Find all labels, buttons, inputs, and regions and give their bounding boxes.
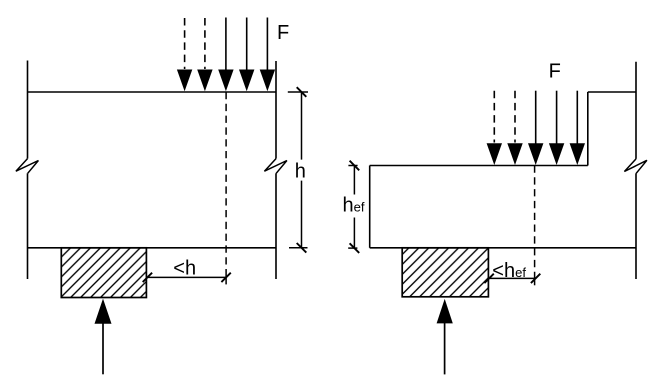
load arrow 5 right diagram: [570, 91, 585, 165]
svg-text:h: h: [295, 160, 306, 182]
left beam top line: [28, 91, 277, 93]
load arrow 2 (dashed) left diagram: [197, 18, 212, 91]
dimension hef right diagram: [348, 161, 359, 253]
support block right diagram (hatched): [402, 248, 488, 297]
svg-text:F: F: [277, 22, 289, 44]
svg-text:F: F: [549, 61, 561, 83]
left beam left edge (with break): [16, 61, 39, 280]
reaction arrow left diagram: [95, 299, 112, 375]
load arrow 1 (dashed) left diagram: [177, 18, 192, 91]
left beam bottom line: [28, 247, 277, 249]
dimension <h left diagram: [143, 273, 231, 282]
load arrow 3 right diagram: [528, 91, 543, 165]
left beam right edge (with break): [264, 61, 287, 279]
right beam outline: [370, 62, 647, 279]
dashed load-spread line left diagram: [225, 92, 227, 272]
load arrow 1 (dashed) right diagram: [487, 91, 502, 165]
load arrow 3 left diagram: [218, 18, 233, 92]
svg-text:<h: <h: [173, 258, 196, 280]
dimension h left diagram: [288, 87, 308, 252]
svg-text:hef: hef: [343, 195, 365, 217]
load arrow 5 left diagram: [260, 18, 275, 92]
dimension <hef right diagram: [484, 274, 540, 283]
load arrow 4 left diagram: [239, 18, 254, 92]
load arrow 4 right diagram: [549, 91, 564, 165]
dashed load-spread line right diagram: [534, 166, 536, 273]
reaction arrow right diagram: [437, 299, 453, 375]
load arrow 2 (dashed) right diagram: [507, 91, 522, 165]
support block left diagram (hatched): [61, 248, 146, 298]
svg-text:<hef: <hef: [492, 260, 526, 282]
